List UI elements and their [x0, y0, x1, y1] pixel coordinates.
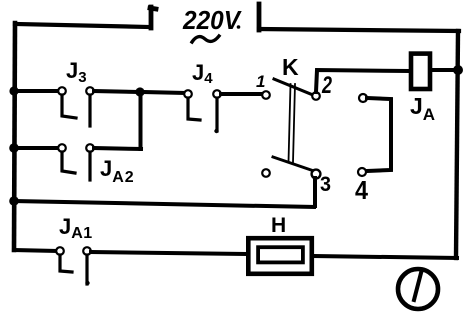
switch K mechanical linkage — [289, 84, 296, 162]
wire JA1 to lamp H — [91, 252, 245, 254]
figure number circle — [398, 269, 438, 309]
wire row C — [14, 201, 314, 207]
wire left bus — [14, 23, 15, 250]
wire top-right horizontal — [259, 29, 459, 31]
switch K terminal 2 — [312, 92, 320, 100]
lamp H outer box — [248, 238, 311, 274]
lamp H inner box — [258, 247, 303, 262]
switch K terminal 4 lower — [358, 168, 366, 176]
node junction dot coil/right bus — [453, 65, 463, 75]
svg-text:K: K — [282, 54, 299, 80]
wire right bus — [456, 31, 458, 258]
svg-text:2: 2 — [321, 72, 332, 99]
contact J4 — [184, 90, 221, 133]
figure number numeral 1 — [414, 273, 421, 300]
switch K blade bottom — [273, 157, 314, 171]
switch K terminal 1 — [262, 91, 270, 99]
wire coil to right bus — [432, 68, 456, 72]
svg-text:1: 1 — [256, 72, 265, 91]
wire K2 to relay coil JA — [316, 70, 408, 92]
node supply terminal stub B — [257, 4, 262, 30]
wire row A to J3 — [14, 89, 58, 93]
node junction dot row B on left bus — [9, 143, 19, 153]
svg-text:H: H — [271, 214, 286, 237]
switch K terminal 4 upper — [359, 94, 367, 102]
svg-text:220V: 220V — [182, 5, 242, 35]
svg-text:3: 3 — [320, 173, 331, 196]
wire K3 down to row C — [313, 178, 317, 206]
wire node to J4 — [144, 92, 184, 93]
switch K terminal 3 — [312, 170, 321, 179]
wire terminal 4 loop — [366, 98, 391, 171]
contact JA2 — [58, 144, 94, 180]
wire J3 to node — [94, 91, 137, 92]
AC tilde symbol — [192, 36, 219, 42]
wire J4 to K terminal 1 — [221, 92, 262, 96]
node junction dot row C on left bus — [9, 196, 19, 206]
switch K blade top — [274, 79, 313, 95]
contact J3 — [58, 87, 94, 126]
wire bottom row to JA1 — [14, 250, 56, 251]
switch K open contact bottom-left — [262, 169, 270, 177]
contact JA1 — [56, 247, 91, 285]
node junction dot row A on left bus — [9, 86, 18, 95]
wire JA2 right to vertical — [94, 148, 141, 149]
wire row B to JA2 — [14, 146, 58, 150]
node supply terminal stub A — [150, 7, 156, 28]
svg-text:4: 4 — [355, 175, 368, 205]
wire lamp H to right bus — [314, 256, 457, 258]
wire top-left horizontal — [15, 24, 149, 27]
wire vertical JA2 to row A — [139, 95, 143, 149]
node junction dot A2 — [135, 87, 144, 96]
relay coil JA — [411, 54, 430, 89]
